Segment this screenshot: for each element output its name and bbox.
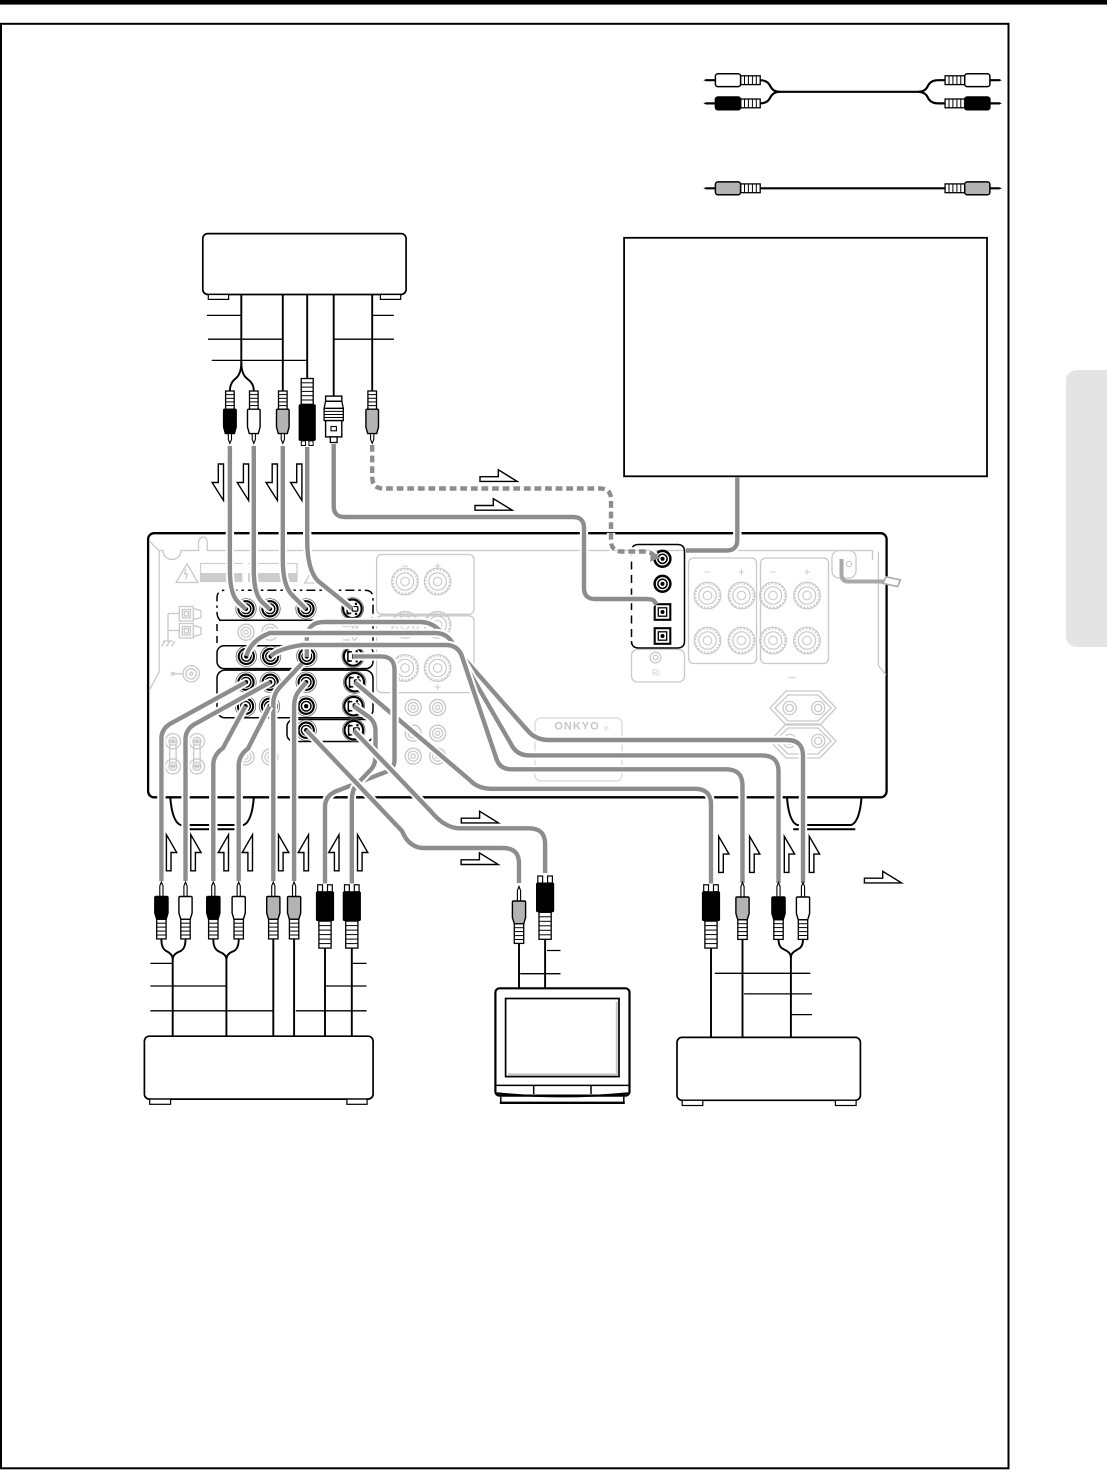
- video2 jack box: [217, 646, 373, 669]
- FM antenna jack ghost: [172, 666, 200, 682]
- svg-text:+: +: [803, 565, 810, 579]
- video1 jack box: [217, 670, 373, 718]
- cable c1: [686, 478, 737, 551]
- video1 jacks row3: [236, 672, 256, 692]
- cable s2: [246, 633, 778, 883]
- accessory audio cable black plug right: [990, 102, 1002, 104]
- note box: [624, 238, 987, 476]
- cable p6: [294, 682, 306, 881]
- speaker connector block ghost: [162, 607, 201, 647]
- right arrows near dashed cable: [480, 470, 517, 482]
- DVD optical TOSLINK plug: [326, 396, 342, 401]
- DVD output cords: [230, 295, 241, 392]
- VCR2 box: [677, 1037, 860, 1100]
- DVD audio plug R white: [250, 391, 259, 409]
- accessory audio cable black plug left: [703, 102, 715, 104]
- cable p8: [352, 706, 376, 883]
- panel inner bevel ghost: [149, 537, 872, 690]
- accessory video cable cord: [760, 187, 945, 189]
- svg-text:−: −: [769, 565, 776, 579]
- bottom-right plugs: [704, 885, 709, 892]
- digital optical jacks: [655, 604, 671, 620]
- down arrows from DVD: [212, 464, 223, 501]
- VCR1 label leader lines: [150, 962, 366, 964]
- cable p7: [325, 656, 395, 883]
- DVD input jack box dash-dot: [217, 590, 373, 620]
- VCR1 cords: [161, 939, 172, 1036]
- accessory audio cable white plug left: [703, 79, 715, 81]
- digital input box: [632, 545, 685, 649]
- DVD coax digital plug gray: [368, 391, 377, 409]
- RI remote box ghost: [632, 650, 685, 683]
- tiny ghost AV glyphs: [343, 627, 358, 642]
- ONKYO logo plate ghost: [535, 718, 622, 781]
- TV set: [495, 988, 629, 1095]
- caution strip ghost: [201, 564, 298, 582]
- cable l3: [213, 706, 245, 881]
- bottom-left plugs: [160, 882, 163, 897]
- right speaker terminal panels ghost: [689, 558, 757, 664]
- top black bar: [0, 0, 1107, 5]
- DVD in jacks row1: [236, 599, 256, 619]
- svg-text:RI: RI: [652, 669, 660, 678]
- dashed cable arrowhead: [650, 552, 661, 562]
- cable t2: [354, 731, 545, 873]
- cable l2: [186, 682, 271, 881]
- ghost pre-out jacks: [405, 700, 421, 716]
- warning triangle right ghost: [305, 568, 322, 583]
- tape jacks row4: [235, 696, 255, 716]
- svg-text:+: +: [434, 680, 441, 694]
- cable a4: [307, 447, 352, 609]
- receiver right foot: [787, 798, 862, 825]
- right arrow far right: [864, 871, 901, 883]
- accessory audio cable cords: [760, 80, 945, 92]
- VCR2 label leader lines: [715, 972, 811, 974]
- cable s1: [307, 622, 803, 883]
- DVD video plug gray: [279, 391, 288, 409]
- DVD player box: [203, 234, 406, 295]
- DVD S-video plug: [301, 379, 313, 405]
- right arrows near TV cables: [461, 811, 498, 823]
- cable a1: [230, 446, 246, 610]
- cable b1: [334, 444, 657, 605]
- cable l4: [239, 706, 270, 881]
- DVD player feet: [208, 295, 228, 300]
- TV label leader lines: [520, 951, 560, 974]
- accessory video cable gray plug left: [703, 187, 715, 189]
- DVD audio plug L black: [226, 391, 235, 409]
- monitor out jack box: [287, 720, 373, 742]
- VCR2 cords: [711, 939, 743, 1037]
- receiver left foot: [170, 798, 254, 825]
- up arrows bottom-left: [166, 835, 176, 871]
- center speaker terminal panels ghost: [377, 555, 474, 615]
- svg-text:+: +: [434, 559, 441, 573]
- cable t1: [306, 730, 519, 883]
- svg-text:+: +: [738, 565, 745, 579]
- warning triangle left ghost: [176, 564, 198, 583]
- svg-text:∼: ∼: [787, 672, 796, 684]
- svg-text:®: ®: [604, 726, 609, 733]
- ghost tuner jacks: [238, 624, 254, 640]
- DVD label leader lines: [207, 314, 394, 316]
- svg-text:ONKYO: ONKYO: [554, 721, 599, 733]
- cable a3: [283, 446, 306, 609]
- AV receiver rear panel: [148, 533, 887, 797]
- monitor out jacks row5: [296, 720, 316, 740]
- svg-text:−: −: [704, 565, 711, 579]
- cable b2: [372, 445, 656, 558]
- svg-text:−: −: [401, 559, 408, 573]
- accessory audio cable white plug right: [990, 79, 1002, 81]
- right gray chapter tab: [1066, 370, 1107, 647]
- accessory video cable gray plug right: [990, 187, 1002, 189]
- cable s3: [271, 645, 743, 883]
- cable l1: [161, 682, 246, 881]
- TV plugs: [517, 887, 520, 902]
- digital coax jacks: [655, 551, 671, 567]
- VCR1 box: [144, 1036, 373, 1099]
- TV cords: [519, 940, 545, 989]
- up arrows bottom-right: [719, 836, 729, 872]
- cable s4: [355, 682, 711, 883]
- video2 jacks row2: [236, 646, 256, 666]
- cable clamp hook ghost: [832, 551, 856, 579]
- cable p5: [273, 664, 302, 882]
- ghost speaker B terminals: [165, 734, 204, 774]
- cable a2: [254, 446, 270, 610]
